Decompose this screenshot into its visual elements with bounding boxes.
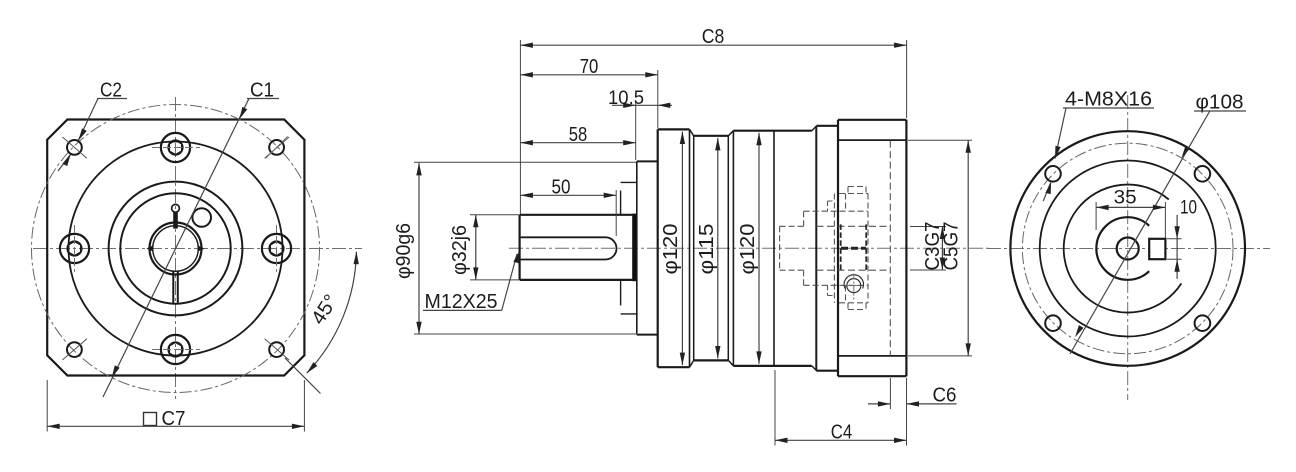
corner hole top-right radial tick — [266, 136, 288, 158]
bolt circle dash-dot r105.3 — [1022, 143, 1233, 354]
hub circle (interrupted by key) — [1096, 217, 1149, 280]
SHCS hole bottom: hex socket — [169, 342, 181, 356]
corner hole top-right tangential tick — [265, 137, 290, 158]
label C2 underline — [97, 98, 127, 100]
dim phi120 second line — [758, 133, 760, 364]
hidden lip lines (dashed) — [804, 211, 868, 285]
SHCS hole top: outer circle — [161, 133, 190, 162]
clamp screw circle — [847, 279, 861, 293]
4-M8X16 underline — [1063, 107, 1154, 109]
corner hole bottom-right tangential tick — [265, 339, 290, 360]
svg-text:C8: C8 — [702, 25, 725, 48]
flange register shoulder lines — [838, 140, 906, 356]
SHCS hole right: outer circle — [262, 234, 291, 263]
front bearing ring silhouette — [621, 182, 637, 314]
joint line 3 — [773, 131, 775, 366]
dim 10 line vertical — [1176, 215, 1178, 279]
SHCS hole bottom tick — [152, 349, 200, 351]
SHCS hole top tick — [152, 147, 200, 149]
svg-text:C6: C6 — [933, 384, 957, 407]
hidden input bore lines (dashed) — [817, 226, 891, 270]
phi108 diameter line — [1070, 111, 1210, 354]
svg-text:58: 58 — [569, 123, 588, 146]
svg-text:10: 10 — [1180, 198, 1197, 219]
dim 50 line — [520, 194, 616, 196]
45 degree dimension arc — [307, 252, 357, 373]
C2 leader lower arrow — [62, 153, 73, 167]
SHCS hole left: outer circle — [60, 234, 89, 263]
C7 extension line right — [303, 380, 305, 432]
SHCS hole bottom: outer circle — [161, 335, 190, 364]
dim C3G7 extensions — [910, 227, 946, 271]
C7 extension line left — [46, 380, 48, 432]
dim phi90g6 extensions — [414, 162, 638, 334]
SHCS hole right: hex socket — [270, 241, 282, 255]
dim C6 extension left (below part) — [889, 378, 891, 409]
spigot face line — [636, 161, 638, 334]
dim phi115 line — [717, 138, 719, 359]
dim phi90g6 line — [418, 163, 420, 334]
45 arc arrow top — [353, 252, 359, 265]
svg-text:C5G7: C5G7 — [940, 222, 963, 271]
groove chamfer top-left — [690, 129, 694, 360]
dim C5G7 line — [967, 140, 969, 356]
svg-text:φ108: φ108 — [1196, 91, 1244, 114]
spigot top and bottom edges — [637, 161, 658, 334]
hidden collar outline (dashed) — [780, 211, 804, 285]
output flange rear face — [905, 120, 907, 376]
set pin small circle top — [172, 204, 180, 212]
svg-text:φ120: φ120 — [659, 224, 682, 275]
bolt hole bottom-right — [1195, 315, 1211, 331]
dim C4 extension left — [774, 370, 776, 446]
C7 square symbol — [144, 413, 157, 426]
dim 10.5 line and tails — [612, 104, 672, 106]
C2 leader upper arrow — [76, 128, 87, 142]
dim C3G7 line — [941, 227, 943, 271]
dim 70 line — [520, 74, 657, 76]
dim 58 line — [520, 142, 635, 144]
keyway slot bottom — [173, 271, 178, 303]
4-M8X16 leader upper arrow — [1052, 146, 1060, 159]
centerline horizontal — [33, 248, 362, 250]
dim phi120 first line — [681, 132, 683, 366]
corner hole top-left tangential tick — [62, 137, 87, 158]
set pin stem — [173, 212, 178, 228]
dim phi32j6 line — [475, 215, 477, 280]
phi108 arrow upper — [1179, 146, 1190, 160]
dim 35 extension right — [1164, 202, 1166, 238]
SHCS hole left tick — [74, 225, 76, 272]
centerline vertical — [175, 97, 177, 399]
4-M8X16 leader lower segment — [1043, 183, 1051, 202]
M12X25 leader — [502, 254, 517, 310]
bore circle — [1117, 238, 1139, 260]
section 5 top and bottom edges — [816, 126, 838, 371]
corner hole bottom-left — [67, 342, 82, 357]
svg-text:φ32j6: φ32j6 — [448, 225, 471, 275]
small hole C1 side — [192, 208, 211, 227]
phi108 underline — [1194, 110, 1246, 112]
corner hole top-left — [67, 140, 82, 155]
svg-text:35: 35 — [1114, 187, 1137, 208]
hub bore outer circle — [150, 223, 202, 275]
hidden lip jogs (dashed) — [828, 201, 834, 296]
SHCS hole right tick — [276, 225, 278, 272]
clamp slit (thick dashed) — [841, 247, 866, 250]
body section 1 top and bottom edges — [658, 129, 690, 367]
shaft keyway slot — [521, 237, 617, 259]
clamp bore dark edges (dashed) — [841, 224, 867, 272]
dim 35 line — [1096, 206, 1165, 208]
centerline horizontal — [987, 248, 1270, 250]
dim phi32j6 extensions — [470, 215, 519, 280]
hidden clamp hub outline (dashed) — [839, 194, 868, 303]
dim 50 extension right — [615, 190, 617, 236]
dim 10 extensions — [1167, 239, 1182, 259]
joint line 4 (body rear face) — [815, 126, 817, 371]
boss circle r88 — [1040, 161, 1216, 337]
C1 diameter arrow lower — [109, 365, 119, 379]
C2 leader lower segment — [58, 154, 71, 171]
45 arc arrow bottom — [305, 362, 318, 375]
svg-text:M12X25: M12X25 — [425, 290, 498, 313]
input shaft outline — [520, 215, 633, 280]
bolt hole bottom-left — [1045, 315, 1061, 331]
chamfer to section 5 — [812, 126, 817, 370]
groove chamfer bottom-left — [690, 360, 694, 367]
big circle r107 — [69, 142, 283, 356]
M12X25 underline — [423, 309, 502, 311]
front bearing ring face — [620, 191, 622, 306]
centerline horizontal — [509, 247, 990, 249]
dim 70 extension right — [657, 70, 659, 128]
bore right tick triangle — [198, 246, 204, 252]
svg-text:70: 70 — [580, 55, 599, 78]
bolt hole top-right — [1195, 166, 1211, 182]
inner retainer circle r55.2 — [120, 193, 230, 303]
dim C6 line and tails — [868, 403, 957, 405]
groove chamfer top-right — [728, 131, 733, 361]
body front face — [657, 129, 659, 367]
dim C6 extension right — [906, 378, 908, 446]
clamp screw centerline — [853, 274, 855, 300]
dim C5G7 extensions — [908, 140, 972, 356]
output flange top and bottom edges — [838, 120, 906, 376]
clamp small step bottom (dashed) — [848, 303, 866, 310]
svg-text:φ115: φ115 — [695, 224, 718, 275]
body section 3-4 top and bottom edges — [733, 131, 811, 366]
groove chamfer bottom-right — [728, 360, 733, 366]
dim C4 line — [775, 439, 907, 441]
svg-text:C7: C7 — [162, 407, 186, 430]
shaft shoulder chamfer bar — [632, 214, 637, 282]
corner hole bottom-right — [269, 342, 284, 357]
dim C8 extension left — [519, 40, 521, 214]
key square — [1149, 239, 1165, 259]
phi108 arrow lower — [1073, 325, 1084, 339]
svg-text:50: 50 — [552, 175, 571, 198]
4-M8X16 leader lower arrow — [1045, 181, 1053, 194]
svg-text:φ90g6: φ90g6 — [392, 223, 415, 279]
C7 arrow left — [47, 424, 60, 429]
svg-text:C4: C4 — [831, 420, 853, 443]
groove bottom edge — [694, 359, 728, 361]
hidden register face (dashed) — [889, 141, 891, 356]
bolt hole top-left — [1045, 166, 1061, 182]
corner hole bottom-left tangential tick — [62, 339, 87, 360]
SHCS hole top: hex socket — [169, 140, 181, 154]
dim 35 extension left — [1095, 202, 1097, 230]
C1 diameter arrow upper — [237, 107, 247, 121]
joint line 1 — [689, 129, 691, 367]
groove top edge — [694, 135, 728, 137]
hidden clamp inner steps (dashed) — [845, 194, 847, 303]
svg-text:4-M8X16: 4-M8X16 — [1065, 88, 1152, 111]
C7 dimension line — [47, 425, 304, 427]
SHCS hole left: hex socket — [68, 241, 80, 255]
dim C8 line — [520, 44, 906, 46]
clamp screw washer arc — [844, 275, 863, 289]
C1 diameter line across bolt circle — [103, 99, 249, 398]
svg-text:φ120: φ120 — [736, 224, 759, 275]
label C1 underline — [247, 98, 279, 100]
hidden clamp left edge (dashed) — [833, 194, 835, 303]
joint line 2 — [732, 131, 734, 366]
corner hole top-right — [269, 140, 284, 155]
dim C8 extension right — [906, 40, 908, 118]
outer circle — [1010, 131, 1245, 366]
dim 10.5 extension left — [635, 100, 637, 160]
centerline vertical — [1127, 95, 1129, 400]
45 radial extension line — [285, 358, 321, 394]
clamp screw cross tick — [848, 285, 861, 287]
bore left tick triangle — [146, 246, 152, 252]
square flange outline with chamfered corners — [47, 120, 304, 376]
clamp small step top (dashed) — [848, 187, 866, 194]
output flange front face — [837, 120, 839, 376]
hub bore inner circle — [153, 226, 199, 272]
C7 arrow right — [292, 424, 305, 429]
svg-text:10.5: 10.5 — [608, 88, 644, 109]
inner broken circle r64 (gap at right) — [1064, 185, 1182, 313]
middle circle r66.9 — [109, 182, 243, 316]
bolt circle (dash-dot) r144 — [32, 105, 320, 393]
C2 leader upper segment — [78, 99, 98, 141]
4-M8X16 leader upper segment — [1055, 108, 1066, 159]
